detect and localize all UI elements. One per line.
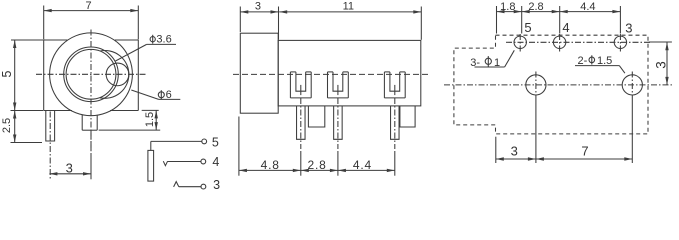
dimension 3 (bottom) <box>496 143 536 160</box>
wire to terminal 5 <box>151 141 202 150</box>
tip contact curl circle <box>106 63 129 86</box>
mounting boss 1 <box>308 106 324 127</box>
svg-text:1.5: 1.5 <box>144 112 156 127</box>
mounting boss 2 <box>400 106 415 127</box>
svg-text:7: 7 <box>86 0 92 12</box>
side pin 2 centerline <box>337 98 339 176</box>
dimension 7 (bottom) <box>536 143 632 160</box>
side pin 1 <box>297 106 306 139</box>
hole 3 (dia 1) <box>614 34 626 52</box>
dimension 5 (body height) <box>0 40 43 111</box>
jack hole circle (dia 3.6) <box>66 49 116 99</box>
dimension 7 (body width) <box>44 0 139 40</box>
side pin 1 centerline <box>300 98 302 176</box>
label 5 <box>524 20 531 35</box>
hole L extension line <box>535 99 537 164</box>
svg-text:5: 5 <box>524 20 531 35</box>
outer bushing circle (dia 6) <box>50 33 133 116</box>
contact slot 3 <box>384 72 405 98</box>
svg-text:3: 3 <box>255 0 261 12</box>
label 2-dia1.5 with leader <box>575 55 625 73</box>
svg-text:3.6: 3.6 <box>156 33 171 45</box>
front center pin centerline <box>90 130 92 179</box>
svg-text:3: 3 <box>213 178 220 191</box>
label pin 4 <box>212 155 219 169</box>
dimension 4.4 (top) <box>560 1 621 34</box>
footprint outline (hidden/dashed) <box>454 35 648 134</box>
svg-text:7: 7 <box>581 143 588 158</box>
terminal 5 circle <box>202 139 207 144</box>
svg-text:2.8: 2.8 <box>308 158 327 172</box>
svg-text:4: 4 <box>212 155 219 169</box>
front left pin <box>46 111 55 142</box>
label dia 6 with leader <box>131 89 180 101</box>
svg-text:3: 3 <box>66 161 73 176</box>
svg-text:5: 5 <box>212 135 219 149</box>
side pin 2 <box>334 106 343 139</box>
front left pin centerline <box>49 112 51 180</box>
svg-text:5: 5 <box>0 70 14 77</box>
svg-text:3: 3 <box>625 20 632 35</box>
svg-text:1.8: 1.8 <box>500 1 515 13</box>
label dia 3.6 with leader <box>116 33 177 61</box>
tip contact arc seen through hole <box>100 51 129 99</box>
wire to terminal 3 <box>179 186 201 188</box>
large hole right (dia 1.5) <box>622 72 642 99</box>
svg-text:1.5: 1.5 <box>597 55 612 67</box>
label 4 <box>562 20 569 35</box>
label 3-dia1 with leader <box>470 50 514 69</box>
side view centerline <box>233 73 428 75</box>
svg-text:6: 6 <box>166 89 172 101</box>
schematic sleeve bar <box>148 150 154 181</box>
tip contact (pin 3) <box>174 182 179 187</box>
dimension 4.4 (side) <box>338 158 395 172</box>
svg-text:1: 1 <box>494 57 500 69</box>
label pin 5 <box>212 135 219 149</box>
dimension 3 (barrel length) <box>240 0 278 39</box>
svg-text:2-: 2- <box>578 55 588 67</box>
dimension 2.5 (pin length) <box>1 111 42 143</box>
svg-text:11: 11 <box>343 0 354 12</box>
dimension 4.8 <box>239 117 301 176</box>
svg-text:3: 3 <box>511 143 518 158</box>
label pin 3 <box>213 178 220 192</box>
svg-text:3: 3 <box>653 61 668 69</box>
dimension 11 (body length) <box>279 0 421 39</box>
front view body outline <box>44 40 139 111</box>
dimension 3 (right side) <box>653 42 668 85</box>
svg-text:2.5: 2.5 <box>1 118 13 133</box>
dimension 3 (pin offset bottom left) <box>49 161 91 176</box>
side pin 3 <box>391 106 400 139</box>
small holes centerline <box>506 41 672 43</box>
dimension 1.5 (center pin length) <box>99 110 161 130</box>
contact slot 2 <box>328 72 349 98</box>
hole R extension line <box>631 99 633 164</box>
side view barrel <box>240 33 278 113</box>
svg-text:2.8: 2.8 <box>528 1 543 13</box>
switch contact (pin 4) <box>163 161 167 166</box>
svg-text:4.4: 4.4 <box>353 158 372 172</box>
wire to terminal 4 <box>168 161 201 163</box>
dimension 2.8 (top) <box>522 1 560 34</box>
front view vertical centerline <box>90 30 92 153</box>
svg-text:3-: 3- <box>470 57 480 69</box>
svg-text:4: 4 <box>562 20 569 35</box>
hole 5 (dia 1) <box>514 34 526 52</box>
hole 4 (dia 1) <box>553 34 565 52</box>
dimension 1.8 <box>497 1 522 34</box>
bushing ring <box>64 47 119 102</box>
footprint left extension line <box>495 137 497 163</box>
svg-text:4.8: 4.8 <box>261 158 280 172</box>
terminal 3 circle <box>201 184 206 189</box>
large holes centerline <box>444 84 673 86</box>
terminal 4 circle <box>201 159 206 164</box>
contact slot 1 <box>290 72 311 98</box>
front center pin <box>82 115 97 131</box>
dimension 2.8 (side) <box>301 158 338 172</box>
svg-text:4.4: 4.4 <box>580 1 595 13</box>
label 3 (top) <box>625 20 632 35</box>
side pin 3 centerline <box>394 98 396 176</box>
front view horizontal centerline <box>36 73 147 75</box>
large hole left (dia 1.5) <box>526 72 546 99</box>
side view body <box>278 40 421 106</box>
